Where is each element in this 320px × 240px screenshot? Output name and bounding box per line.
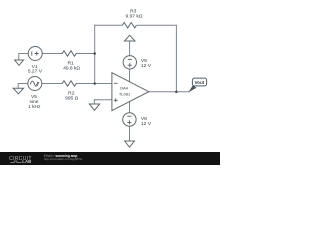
svg-text:5.27 V: 5.27 V bbox=[28, 69, 43, 75]
svg-text:Vout: Vout bbox=[194, 80, 204, 85]
svg-text:V5: V5 bbox=[31, 94, 37, 100]
svg-text:9.97 kΩ: 9.97 kΩ bbox=[126, 14, 143, 20]
svg-text:OA4: OA4 bbox=[120, 86, 129, 91]
svg-text:12 V: 12 V bbox=[141, 121, 152, 127]
svg-text:1 kHz: 1 kHz bbox=[28, 104, 41, 110]
svg-text:49.8 kΩ: 49.8 kΩ bbox=[63, 65, 80, 71]
svg-text:http://circuitlab.com/gpp87lx: http://circuitlab.com/gpp87lx bbox=[44, 157, 83, 161]
svg-text:TL081: TL081 bbox=[119, 91, 131, 96]
svg-text:12 V: 12 V bbox=[141, 63, 152, 69]
svg-text:995 Ω: 995 Ω bbox=[65, 95, 79, 101]
svg-text:LAB: LAB bbox=[22, 159, 31, 164]
